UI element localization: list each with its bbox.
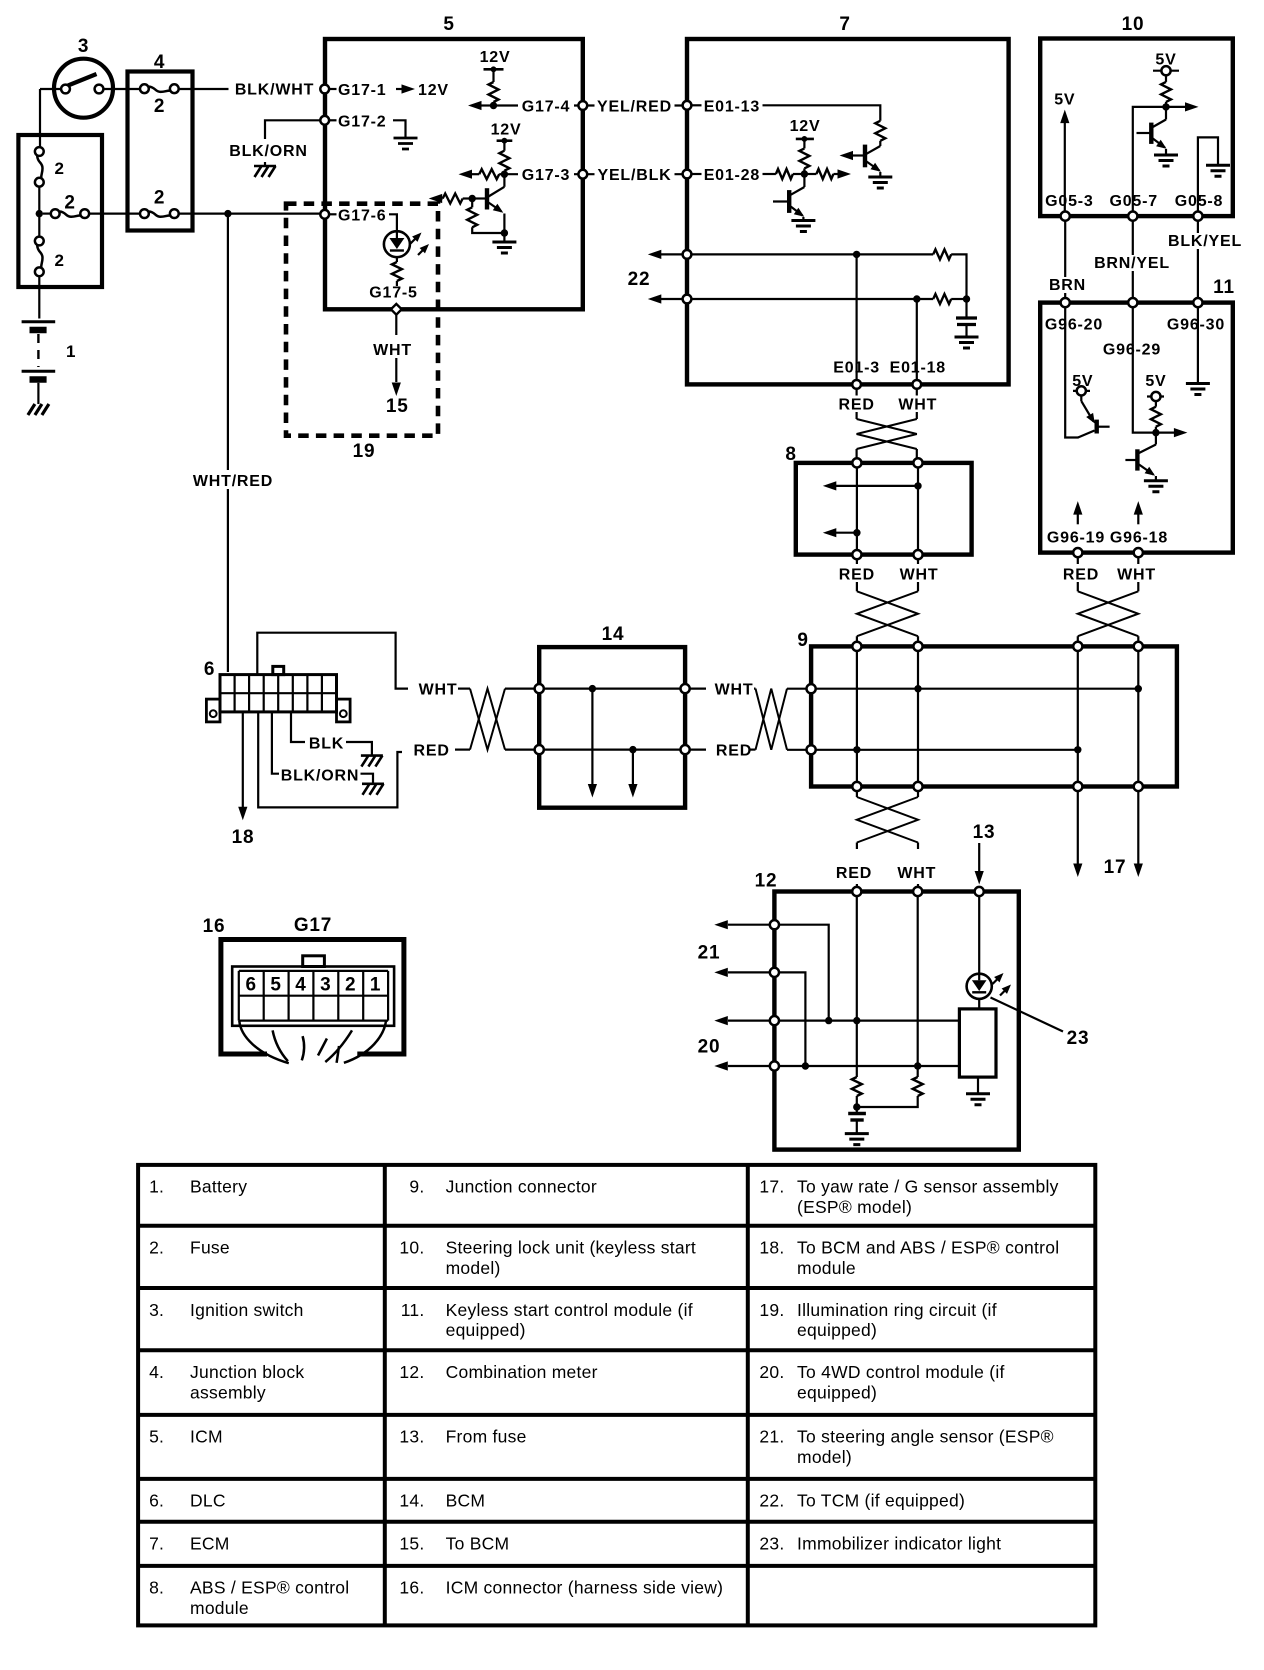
svg-text:2: 2 — [345, 975, 356, 996]
svg-text:G96-18: G96-18 — [1110, 530, 1168, 547]
svg-text:RED: RED — [1063, 567, 1099, 584]
twisted pair ECM to ABS (WHT) — [916, 389, 918, 396]
pin G96-30 — [1193, 298, 1202, 307]
pin E01-18 — [912, 380, 921, 389]
LED (immobilizer ring) — [384, 231, 410, 257]
twist crossing (left of BCM) — [458, 687, 470, 689]
arrow 22 upper — [660, 253, 683, 255]
internal bus 3 — [779, 1019, 960, 1021]
resistor — [799, 148, 809, 168]
twist crossing — [857, 419, 917, 449]
battery 1 feed wire — [40, 88, 61, 90]
svg-text:6: 6 — [246, 975, 257, 996]
bus junction dots — [914, 685, 921, 692]
internal wire pin2 — [779, 972, 806, 1066]
wire BRN/YEL — [1132, 221, 1134, 299]
internal bus WHT (BCM) — [544, 687, 681, 689]
svg-text:E01-18: E01-18 — [890, 360, 946, 377]
svg-text:Keyless start control module (: Keyless start control module (if — [446, 1300, 693, 1320]
fuse 2 (horizontal) — [43, 213, 51, 215]
svg-text:Battery: Battery — [190, 1177, 247, 1197]
twisted pair ABS to junction (WHT) — [917, 559, 919, 564]
svg-text:ABS / ESP® control: ABS / ESP® control — [190, 1578, 349, 1598]
svg-text:assembly: assembly — [190, 1382, 266, 1402]
svg-text:19.: 19. — [759, 1300, 784, 1320]
twisted pair keyless to junction (WHT) — [1137, 557, 1139, 564]
wire to G17-3 — [504, 173, 578, 175]
wire fan — [239, 1020, 386, 1063]
wire BLK — [291, 712, 305, 742]
resistor below LED — [396, 257, 398, 262]
pin G17-3 — [578, 170, 587, 179]
svg-text:15.: 15. — [399, 1534, 424, 1554]
node — [501, 171, 508, 178]
pins box 8 bottom — [852, 550, 861, 559]
svg-text:WHT: WHT — [1117, 567, 1156, 584]
pin (22 lower) — [683, 295, 692, 304]
twisted pair junction to meter (RED) — [856, 791, 858, 797]
pin G96-19 bottom — [1073, 548, 1082, 557]
svg-text:E01-13: E01-13 — [704, 98, 760, 115]
svg-text:18.: 18. — [759, 1238, 784, 1258]
junction connector box 9 — [811, 646, 1177, 786]
svg-text:G05-7: G05-7 — [1109, 193, 1157, 210]
svg-text:RED: RED — [414, 743, 450, 760]
wire E01-13 net — [763, 105, 881, 121]
svg-text:12V: 12V — [790, 118, 821, 135]
wire to battery — [38, 276, 40, 318]
wire fuse row to junction block — [89, 213, 140, 215]
arrow up (G96-18) — [1137, 512, 1139, 524]
svg-text:8: 8 — [785, 444, 796, 465]
internal bus WHT (box 9) — [816, 688, 1139, 690]
transistor Q6 (keyless right) — [1125, 433, 1156, 480]
keyless start module box 11 — [1040, 303, 1233, 553]
arrow (Q2 base, left) — [840, 151, 854, 160]
wire + resistors E01-28 net — [763, 173, 776, 175]
ground (BLK/ORN) — [361, 774, 374, 783]
svg-text:Steering lock unit (keyless st: Steering lock unit (keyless start — [446, 1238, 696, 1258]
ground (Q1) — [503, 233, 505, 242]
ignition switch 3 — [54, 59, 113, 118]
twisted pair keyless to junction (RED) — [1077, 557, 1079, 564]
battery 1 — [22, 320, 56, 323]
svg-text:16.: 16. — [399, 1578, 424, 1598]
ground (Q2) — [868, 177, 892, 188]
arrow up (G96-19) — [1077, 512, 1079, 524]
svg-text:16: 16 — [203, 916, 226, 937]
svg-text:1: 1 — [66, 342, 76, 361]
svg-text:G17-5: G17-5 — [369, 285, 417, 302]
wire G96-29 net — [1133, 307, 1156, 432]
transistor Q1 (in ICM) — [474, 174, 504, 233]
svg-text:1: 1 — [370, 975, 381, 996]
svg-text:E01-3: E01-3 — [833, 360, 880, 377]
svg-text:WHT: WHT — [373, 342, 412, 359]
pointer line to 23 — [991, 998, 1064, 1032]
svg-text:21.: 21. — [759, 1427, 784, 1447]
svg-text:BCM: BCM — [446, 1491, 486, 1511]
svg-text:BRN/YEL: BRN/YEL — [1094, 255, 1170, 272]
svg-text:3: 3 — [320, 975, 331, 996]
connector tab — [303, 956, 325, 967]
svg-text:4: 4 — [154, 52, 165, 73]
internal bus RED (BCM) — [544, 748, 681, 750]
pin G17-5 — [391, 304, 402, 315]
WHT vertical + resistor (meter) — [917, 896, 919, 1077]
ground (meter element) — [977, 1077, 979, 1094]
svg-text:BRN: BRN — [1049, 277, 1086, 294]
DLC connector 6 — [206, 666, 350, 721]
internal verticals (box 9) — [856, 651, 858, 782]
wire node to G05-7 — [1133, 107, 1166, 212]
svg-text:model): model) — [446, 1258, 501, 1278]
ground (Q4) — [1154, 155, 1178, 166]
BCM box 14 — [539, 647, 685, 808]
svg-text:5: 5 — [443, 14, 454, 35]
pin E01-28 — [683, 170, 692, 179]
svg-text:3: 3 — [78, 36, 89, 57]
svg-text:2.: 2. — [149, 1238, 164, 1258]
svg-text:equipped): equipped) — [797, 1382, 877, 1402]
ABS / ESP control module box 8 — [796, 463, 972, 555]
svg-text:4: 4 — [295, 975, 306, 996]
svg-text:To BCM: To BCM — [446, 1534, 510, 1554]
svg-text:7: 7 — [839, 14, 850, 35]
svg-text:BLK/ORN: BLK/ORN — [281, 768, 359, 785]
internal wires box 8 — [856, 468, 858, 551]
svg-text:module: module — [190, 1598, 249, 1618]
wire net A (to E01-3) — [692, 253, 934, 255]
svg-text:17: 17 — [1104, 857, 1127, 878]
resistor — [1161, 82, 1171, 102]
svg-text:WHT: WHT — [419, 682, 458, 699]
twist crossing (right of BCM) — [690, 687, 706, 689]
wire DLC to WHT (to BCM) — [257, 633, 408, 689]
svg-text:WHT: WHT — [900, 567, 939, 584]
wire YEL/BLK (G17-3 to E01-28) — [587, 173, 682, 175]
fuse block (left) — [18, 135, 102, 287]
fuse 2 (lower vertical) — [35, 237, 44, 246]
svg-text:11.: 11. — [401, 1300, 425, 1320]
svg-text:7.: 7. — [149, 1534, 164, 1554]
pins box 12 top — [852, 887, 861, 896]
node junction — [36, 210, 43, 217]
svg-text:YEL/BLK: YEL/BLK — [597, 167, 671, 184]
svg-text:G17-6: G17-6 — [338, 207, 386, 224]
svg-text:18: 18 — [232, 827, 255, 848]
svg-text:WHT/RED: WHT/RED — [193, 473, 273, 490]
fuse 2 (upper vertical) — [35, 147, 44, 156]
svg-text:BLK/ORN: BLK/ORN — [229, 143, 307, 160]
svg-text:2: 2 — [154, 96, 165, 117]
ground (capacitor) — [955, 337, 979, 348]
svg-text:19: 19 — [353, 441, 376, 462]
svg-text:WHT: WHT — [897, 865, 936, 882]
ground (G17-2 internal) — [393, 120, 406, 137]
svg-text:module: module — [797, 1258, 856, 1278]
wire — [38, 187, 40, 237]
illumination ring dashed box 19 — [286, 204, 438, 436]
svg-text:DLC: DLC — [190, 1491, 226, 1511]
svg-text:12V: 12V — [491, 122, 522, 139]
resistor — [875, 121, 885, 141]
wire BLK/WHT fuse to ICM — [179, 88, 320, 90]
twist crossing — [1078, 591, 1139, 636]
wire BLK/ORN stub — [265, 120, 320, 139]
combination meter box 12 — [774, 892, 1018, 1150]
ground (Q6) — [1144, 481, 1168, 492]
twist crossing — [857, 797, 918, 843]
svg-text:G96-30: G96-30 — [1167, 317, 1225, 334]
arrow 13 down — [978, 843, 980, 871]
node — [490, 102, 497, 109]
arrow 18 (to BCM and ABS) — [242, 712, 244, 807]
svg-text:To 4WD control module (if: To 4WD control module (if — [797, 1362, 1005, 1382]
twist crossing — [857, 591, 918, 636]
svg-text:Combination meter: Combination meter — [446, 1362, 598, 1382]
RED vertical + resistor (meter) — [856, 896, 858, 1077]
svg-text:ECM: ECM — [190, 1534, 230, 1554]
svg-text:equipped): equipped) — [797, 1320, 877, 1340]
svg-text:11: 11 — [1213, 277, 1235, 298]
wire E01-3 vertical — [855, 254, 857, 380]
wire fuse row to G17-6 — [179, 213, 320, 215]
connector cells — [239, 971, 388, 1021]
svg-text:6: 6 — [204, 659, 215, 680]
svg-text:5V: 5V — [1054, 92, 1075, 109]
svg-text:22: 22 — [628, 269, 651, 290]
svg-text:5V: 5V — [1145, 373, 1166, 390]
wire BRN — [1064, 221, 1066, 299]
svg-text:2: 2 — [55, 159, 65, 178]
svg-text:RED: RED — [836, 865, 872, 882]
wire switch to junction block — [103, 88, 140, 90]
pins box 14 left — [535, 684, 544, 693]
svg-text:14: 14 — [602, 624, 625, 645]
wire BLK/ORN — [272, 712, 279, 774]
LED light arrows — [411, 238, 417, 244]
wire WHT/RED down to DLC — [227, 214, 229, 672]
svg-text:20.: 20. — [759, 1362, 784, 1382]
svg-text:G96-20: G96-20 — [1045, 317, 1103, 334]
wire G96-20 net — [1065, 307, 1078, 437]
capacitor (ECM) — [965, 299, 967, 318]
twisted pair ECM to ABS (RED) — [855, 389, 857, 396]
svg-text:G17-1: G17-1 — [338, 82, 386, 99]
svg-text:To BCM and ABS / ESP® control: To BCM and ABS / ESP® control — [797, 1238, 1059, 1258]
svg-text:BLK/WHT: BLK/WHT — [235, 82, 314, 99]
svg-text:Ignition switch: Ignition switch — [190, 1300, 304, 1320]
wire G17-6 to LED — [389, 214, 397, 231]
pin E01-3 — [852, 380, 861, 389]
wire G96-30 to ground — [1197, 307, 1199, 383]
pins box 12 left — [770, 920, 779, 929]
node WHT/RED branch — [224, 210, 231, 217]
resistor (base-emitter) — [471, 199, 473, 208]
internal arrow (RED) — [632, 750, 634, 784]
arrow 22 lower — [660, 298, 683, 300]
svg-text:G17-3: G17-3 — [522, 167, 570, 184]
svg-text:13: 13 — [973, 822, 996, 843]
ICM box 5 — [325, 39, 583, 309]
svg-text:equipped): equipped) — [446, 1320, 526, 1340]
svg-text:RED: RED — [716, 743, 752, 760]
ground (battery) — [28, 404, 49, 415]
wire WHT to BCM — [395, 315, 397, 336]
wire stubs into ABS module — [855, 449, 857, 459]
svg-text:RED: RED — [839, 567, 875, 584]
arrows 17 (to yaw rate sensor) — [1077, 791, 1079, 864]
pins box 8 top — [852, 458, 861, 467]
pin (22 upper) — [683, 250, 692, 259]
ground (BLK) — [346, 742, 372, 755]
junction block assembly 4 — [128, 72, 193, 231]
arrow (internal right) — [1156, 432, 1174, 434]
svg-text:23.: 23. — [759, 1534, 784, 1554]
svg-text:YEL/RED: YEL/RED — [597, 99, 672, 116]
wire E01-18 vertical — [916, 299, 918, 380]
transistor Q2 (ECM upper) — [852, 145, 881, 177]
svg-text:G17: G17 — [294, 915, 332, 936]
pins box 9 bottom — [852, 782, 861, 791]
svg-text:RED: RED — [839, 397, 875, 414]
steering lock unit box 10 — [1040, 39, 1233, 217]
ECM box 7 — [687, 39, 1009, 384]
pin G96-18 bottom — [1134, 548, 1143, 557]
svg-text:Illumination ring circuit (if: Illumination ring circuit (if — [797, 1300, 997, 1320]
svg-text:2: 2 — [55, 251, 65, 270]
svg-text:G17-2: G17-2 — [338, 113, 386, 130]
svg-text:5: 5 — [270, 975, 281, 996]
LED light arrows — [993, 978, 999, 984]
fuse 2 (bottom, in junction block) — [140, 209, 149, 218]
resistor — [499, 151, 509, 171]
svg-text:G05-8: G05-8 — [1175, 193, 1223, 210]
fuse 2 (top, in junction block) — [140, 84, 149, 93]
svg-text:1.: 1. — [149, 1177, 164, 1197]
pins box 14 right — [681, 684, 690, 693]
ICM connector body — [232, 967, 394, 1026]
svg-text:10.: 10. — [399, 1238, 424, 1258]
transistor Q3 (ECM lower) — [773, 174, 804, 221]
ICM connector outline box — [221, 940, 404, 1055]
ground hook (G05-8) — [1198, 137, 1218, 211]
svg-text:12V: 12V — [418, 82, 449, 99]
pin G17-1 — [320, 85, 329, 94]
svg-text:17.: 17. — [759, 1177, 784, 1197]
svg-text:2: 2 — [64, 193, 75, 214]
svg-text:8.: 8. — [149, 1578, 164, 1598]
label BLK/ORN — [224, 140, 314, 159]
svg-text:ICM: ICM — [190, 1427, 223, 1447]
node (base) — [469, 195, 476, 202]
pin G05-3 — [1061, 212, 1070, 221]
arrow internal upper — [914, 482, 921, 489]
svg-text:6.: 6. — [149, 1491, 164, 1511]
svg-text:E01-28: E01-28 — [704, 167, 760, 184]
wire YEL/RED (G17-4 to E01-13) — [587, 104, 682, 106]
svg-text:(ESP® model): (ESP® model) — [797, 1197, 912, 1217]
pin G05-7 — [1128, 212, 1137, 221]
svg-text:To yaw rate / G sensor assembl: To yaw rate / G sensor assembly — [797, 1177, 1059, 1197]
svg-text:G17-4: G17-4 — [522, 99, 570, 116]
twisted pair ABS to junction (RED) — [856, 559, 858, 564]
svg-text:Junction block: Junction block — [190, 1362, 304, 1382]
svg-text:12: 12 — [755, 871, 778, 892]
node — [1152, 429, 1159, 436]
arrow 20b — [728, 1065, 770, 1067]
node — [1162, 103, 1169, 110]
svg-text:3.: 3. — [149, 1300, 164, 1320]
svg-text:G96-19: G96-19 — [1047, 530, 1105, 547]
internal bus 4 — [779, 1065, 960, 1067]
svg-text:15: 15 — [386, 396, 409, 417]
svg-text:To steering angle sensor (ESP®: To steering angle sensor (ESP® — [797, 1427, 1054, 1447]
svg-text:5.: 5. — [149, 1427, 164, 1447]
svg-text:Immobilizer indicator light: Immobilizer indicator light — [797, 1534, 1001, 1554]
svg-text:Fuse: Fuse — [190, 1238, 230, 1258]
pin G17-6 — [320, 210, 329, 219]
svg-text:13.: 13. — [399, 1427, 424, 1447]
svg-text:From fuse: From fuse — [446, 1427, 527, 1447]
arrow 20a — [728, 1019, 770, 1021]
arrow (internal, left) — [479, 104, 494, 106]
wire battery to ground — [37, 383, 39, 404]
arrow 21a — [728, 924, 770, 926]
pin G96-20 — [1061, 298, 1070, 307]
resistor — [489, 82, 499, 102]
svg-text:To TCM (if equipped): To TCM (if equipped) — [797, 1491, 965, 1511]
wire net B (to E01-18) — [692, 298, 934, 300]
svg-text:WHT: WHT — [715, 682, 754, 699]
pin G17-2 — [320, 116, 329, 125]
svg-text:Junction connector: Junction connector — [446, 1177, 597, 1197]
svg-text:WHT: WHT — [898, 397, 937, 414]
svg-text:12.: 12. — [399, 1362, 424, 1382]
svg-text:G05-3: G05-3 — [1045, 193, 1093, 210]
svg-text:9: 9 — [797, 630, 808, 651]
pin G96-29 — [1128, 298, 1137, 307]
svg-text:22.: 22. — [759, 1491, 784, 1511]
resistor + arrow (internal, left) — [499, 173, 504, 175]
capacitor (meter) — [848, 1112, 866, 1115]
ground (Q3) — [791, 221, 815, 232]
pin G17-4 — [578, 101, 587, 110]
svg-text:21: 21 — [698, 943, 721, 964]
svg-text:BLK: BLK — [309, 736, 344, 753]
wire BLK/YEL — [1197, 221, 1199, 299]
svg-text:BLK/YEL: BLK/YEL — [1168, 233, 1242, 250]
resistor + arrow (base, left) — [463, 197, 473, 199]
svg-text:10: 10 — [1122, 14, 1145, 35]
wire to G17-4 — [494, 104, 579, 106]
svg-text:ICM connector (harness side vi: ICM connector (harness side view) — [446, 1578, 724, 1598]
arrow to 12V — [396, 88, 402, 90]
svg-text:23: 23 — [1067, 1028, 1090, 1049]
svg-text:4.: 4. — [149, 1362, 164, 1382]
pin E01-13 — [683, 101, 692, 110]
wire DLC to RED (to BCM) — [258, 712, 402, 808]
pins box 9 top — [852, 642, 861, 651]
twisted pair junction to meter (WHT) — [917, 791, 919, 797]
pin G05-8 — [1193, 212, 1202, 221]
svg-text:9.: 9. — [409, 1177, 424, 1197]
meter element rect — [978, 999, 980, 1009]
resistor — [1151, 407, 1161, 427]
arrow (internal right) — [1166, 106, 1186, 108]
transistor Q4 (steering lock) — [1137, 107, 1167, 155]
